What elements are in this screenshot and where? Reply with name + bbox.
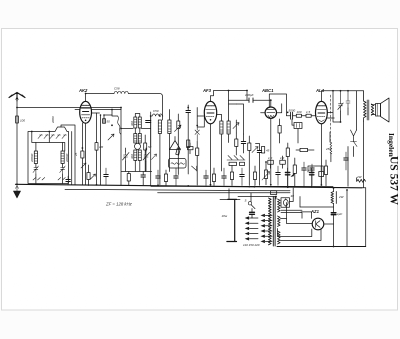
AK2 cathode trimmer xyxy=(81,163,86,168)
resistor x166 xyxy=(164,170,167,185)
svg-text:US 537 W: US 537 W xyxy=(388,156,400,205)
resistor horizontal x300-308 xyxy=(296,148,314,151)
cap x312 xyxy=(310,164,314,186)
wire antenna to tuner xyxy=(17,107,121,109)
cap x176 xyxy=(174,168,178,185)
GB box xyxy=(319,166,324,185)
secondary HV winding xyxy=(278,199,281,212)
svg-text:18w: 18w xyxy=(222,214,228,218)
right vertical x347 xyxy=(346,190,348,246)
wire antenna down xyxy=(16,101,18,184)
resistor x255 xyxy=(253,166,256,185)
volume pot arrow xyxy=(252,147,258,153)
svg-text:S: S xyxy=(245,199,247,203)
osc cap blob xyxy=(146,116,151,146)
IF transformer 1 link xyxy=(120,109,122,111)
svg-text:C58: C58 xyxy=(114,87,120,91)
AF coupling cap xyxy=(256,144,262,186)
tuning gang cap 1 xyxy=(123,152,130,161)
svg-text:100pF: 100pF xyxy=(245,93,254,97)
wire box tab to AK2 grid xyxy=(61,125,75,185)
IF1 primary top coil xyxy=(151,109,163,116)
power transformer primary winding xyxy=(269,198,272,245)
secondary winding 2 xyxy=(278,216,281,226)
primary tap arrows left xyxy=(245,216,258,240)
AGC divider resistor xyxy=(248,136,251,185)
svg-text:AK2: AK2 xyxy=(78,88,88,93)
bus C line xyxy=(158,192,290,194)
electrolytic plus cap xyxy=(308,168,314,187)
osc frame wires xyxy=(121,108,152,187)
coil L2 xyxy=(61,151,69,164)
osc coil pair 3 xyxy=(130,150,141,161)
ground xyxy=(13,184,20,198)
svg-text:100: 100 xyxy=(20,119,25,123)
tube ABC1 xyxy=(261,88,276,185)
detector contacts xyxy=(195,126,199,142)
cap x278 xyxy=(276,166,280,185)
mains switch xyxy=(245,197,256,209)
switch boxes xyxy=(229,162,245,165)
AGC cap blob xyxy=(186,105,190,174)
IF1 coil A xyxy=(158,120,161,134)
speaker connector box xyxy=(271,191,277,195)
svg-text:50: 50 xyxy=(107,120,111,124)
electrolytic 1uF xyxy=(331,212,342,216)
Ingelen brand text xyxy=(387,133,400,205)
small resistor 50 xyxy=(144,135,152,172)
svg-text:2000: 2000 xyxy=(51,116,55,124)
pot arrow xyxy=(262,172,270,181)
transformer secondary xyxy=(371,104,373,115)
cap x106 xyxy=(104,168,108,185)
tuning gang cap 2 xyxy=(143,152,150,161)
AK2 grid side wires xyxy=(75,110,121,114)
bus A2 parallel line xyxy=(151,185,333,187)
svg-text:1M: 1M xyxy=(99,145,104,149)
antenna coupling capacitor xyxy=(16,116,26,123)
cap x304 xyxy=(302,162,306,187)
svg-text:302: 302 xyxy=(130,154,134,159)
tone cap 1,0 A xyxy=(268,156,274,168)
resistor x295 xyxy=(293,158,296,187)
cap x242 xyxy=(240,168,244,186)
osc coupling circle xyxy=(135,143,141,149)
IF1 tuning cap xyxy=(177,114,180,175)
curvy grid wire xyxy=(118,116,121,134)
voltage selector bracket xyxy=(222,199,237,241)
secondary winding 3 xyxy=(278,231,281,244)
cap x224 xyxy=(222,168,226,186)
tone cap 1,0 B xyxy=(280,156,286,168)
AF switch contact xyxy=(192,166,197,171)
grid resistor AL4 xyxy=(296,110,306,117)
svg-text:45: 45 xyxy=(266,149,270,153)
svg-text:20000: 20000 xyxy=(30,153,34,163)
lower switch xyxy=(351,142,358,147)
dial lamp xyxy=(281,194,294,207)
osc trimmer arrow xyxy=(108,134,114,140)
wire right of box xyxy=(71,132,73,185)
trimmer cap right xyxy=(60,166,65,174)
rectifier AZ1 xyxy=(310,209,324,230)
tone cap 1 xyxy=(338,91,343,111)
transformer core xyxy=(273,197,275,247)
det load resistor xyxy=(196,141,199,185)
mains cap blob xyxy=(250,209,255,218)
resistor x326 xyxy=(324,160,327,186)
svg-text:1µF: 1µF xyxy=(337,212,342,216)
svg-text:ZF = 128 kHz: ZF = 128 kHz xyxy=(105,202,133,207)
main bus A xyxy=(16,184,363,188)
osc coil pair 2 xyxy=(134,134,142,144)
screen resistor xyxy=(87,165,90,186)
AGC resistor xyxy=(187,140,190,148)
line y166 xyxy=(308,166,323,172)
IF2 coil B xyxy=(227,121,230,134)
feedback zigzag resistor xyxy=(325,132,332,162)
IF1 coil B xyxy=(168,120,171,134)
svg-text:110 150 220: 110 150 220 xyxy=(243,243,260,247)
speaker feedback resistor 2W xyxy=(356,175,366,183)
osc coil pair 1 xyxy=(130,117,141,128)
det cap xyxy=(241,134,245,153)
bandfilter side rect xyxy=(188,143,194,154)
field coil choke xyxy=(331,192,345,204)
cap 100pF to ABC1 grid xyxy=(245,93,256,102)
anode resistor ABC1 xyxy=(278,119,281,143)
main bus B xyxy=(65,189,290,190)
mains line upper xyxy=(238,193,276,199)
svg-text:C59: C59 xyxy=(153,109,159,113)
svg-text:AF3: AF3 xyxy=(202,88,212,93)
tube AL4 xyxy=(315,88,327,185)
transformer core xyxy=(367,100,369,120)
tube AK2 xyxy=(78,88,92,185)
svg-text:20000: 20000 xyxy=(65,153,69,163)
grid leak resistor 1M xyxy=(95,143,104,151)
svg-text:1,5: 1,5 xyxy=(306,110,311,114)
grid leak sub-box xyxy=(292,119,302,143)
cap x206 xyxy=(204,170,208,185)
dashed AVC line xyxy=(329,95,331,143)
svg-text:50: 50 xyxy=(148,145,152,149)
svg-text:30: 30 xyxy=(291,194,295,198)
det diode resistor xyxy=(235,133,238,155)
trimmer arrow right xyxy=(152,154,157,160)
cathode bypass blob xyxy=(285,168,294,187)
trimmer cap left xyxy=(33,166,39,174)
line y199 xyxy=(220,189,240,200)
tube AF3 xyxy=(202,88,217,185)
AF3 lower left wire xyxy=(197,116,204,127)
primary tap arrows right xyxy=(261,214,273,243)
svg-text:302: 302 xyxy=(130,121,134,126)
IF2 trimmer xyxy=(233,123,239,129)
coupling cap to AL4 xyxy=(287,108,297,119)
input band filter box xyxy=(28,127,69,184)
antenna xyxy=(9,93,25,102)
phase V fork xyxy=(351,130,357,142)
padder cap xyxy=(141,172,145,186)
coil L1 xyxy=(30,151,38,164)
osc section verticals xyxy=(101,115,113,185)
AZ1 wiring xyxy=(300,206,334,208)
svg-text:5000: 5000 xyxy=(289,108,296,112)
speaker xyxy=(371,98,389,122)
oscillator anode coil xyxy=(114,87,128,94)
right side verticals xyxy=(333,91,364,188)
box bottom contacts xyxy=(33,174,65,184)
switch cluster xyxy=(227,156,245,161)
series grid resistor 2 xyxy=(306,110,316,117)
svg-text:25: 25 xyxy=(74,152,78,157)
svg-text:1,0: 1,0 xyxy=(268,156,273,160)
bandfilter resistor xyxy=(176,148,180,155)
pot x266 xyxy=(264,162,267,185)
resistor x288 xyxy=(286,143,289,187)
bottom right bus xyxy=(277,246,366,248)
bandfilter triangle xyxy=(170,137,181,150)
IF1 trimmer arrow xyxy=(175,125,182,132)
cap x346 xyxy=(344,152,348,170)
osc grid resistor small xyxy=(103,119,111,124)
AK2 top anode wire xyxy=(86,93,114,95)
tone cap 2 xyxy=(346,91,350,108)
svg-text:250: 250 xyxy=(325,147,331,151)
AF3 anode wire xyxy=(211,91,248,121)
ABC1 anode wire xyxy=(261,94,287,116)
svg-text:100: 100 xyxy=(297,110,302,114)
IF transformer 2 coil A xyxy=(220,121,223,134)
padder resistor xyxy=(127,172,130,186)
resistor x214 xyxy=(212,168,215,186)
right edge vertical xyxy=(365,188,367,247)
svg-text:Ingelen: Ingelen xyxy=(387,133,396,158)
band switch trimmers row xyxy=(38,135,67,139)
resistor x232 xyxy=(230,166,233,186)
cap under box xyxy=(66,176,70,185)
cap x158 xyxy=(156,170,160,185)
box top junctions xyxy=(32,132,65,152)
output transformer primary xyxy=(364,91,367,122)
screen trimmer xyxy=(91,174,96,179)
svg-text:ABC1: ABC1 xyxy=(261,88,274,93)
output cathode resistor xyxy=(262,147,270,154)
AK2 cathode resistor xyxy=(74,123,84,185)
bandfilter box xyxy=(169,159,187,169)
